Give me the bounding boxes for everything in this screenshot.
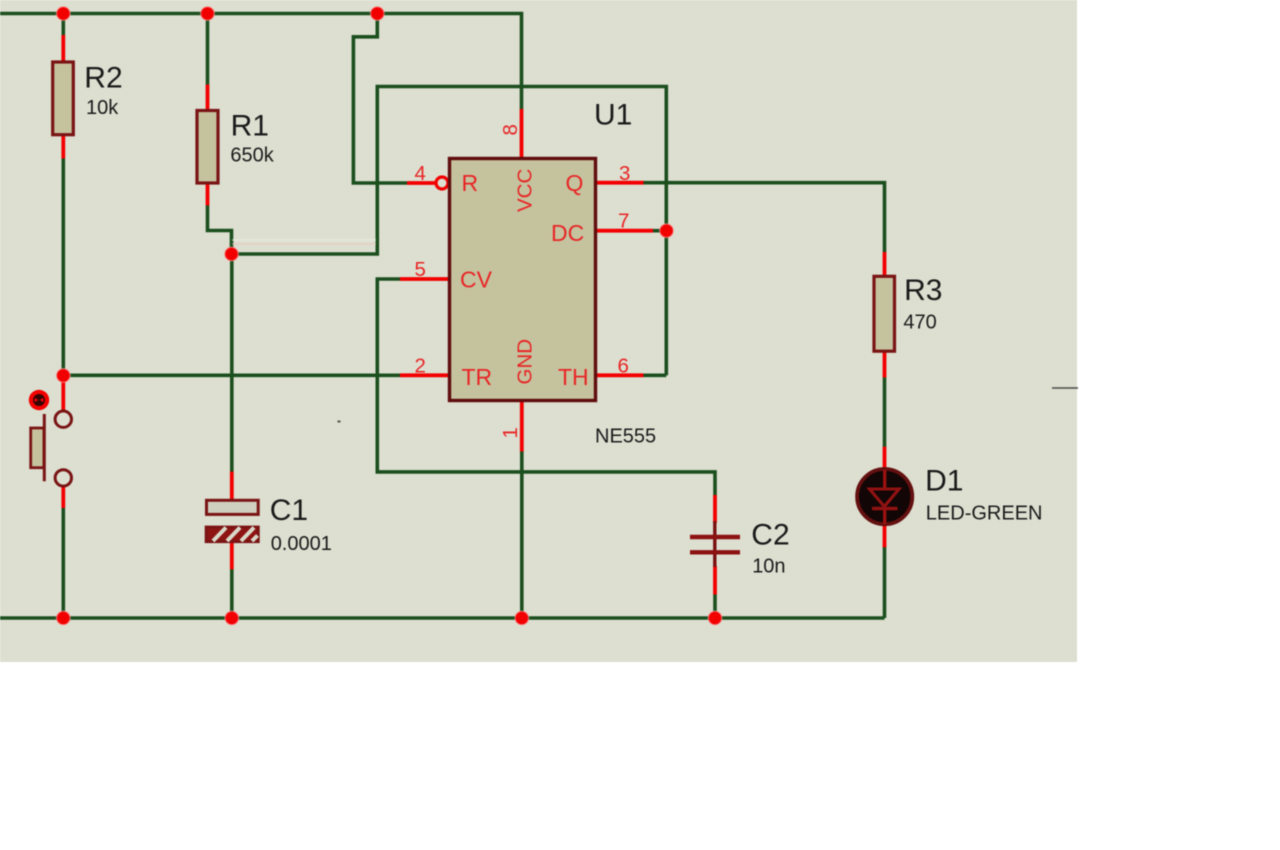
svg-text:R3: R3 [904, 274, 942, 307]
pin stub R2 top [61, 35, 65, 63]
pin stub U1 pin4 R [407, 181, 435, 185]
wire: pin1 GND drop [520, 451, 524, 618]
svg-text:LED-GREEN: LED-GREEN [926, 502, 1043, 524]
pin stub R3 top [883, 252, 887, 277]
wire: button bottom to ground rail [61, 508, 65, 619]
wire: Q output to R3 [643, 183, 885, 252]
faint ghost band [232, 239, 376, 241]
pin stub button bottom [61, 486, 65, 508]
pin stub R3 bottom [883, 351, 887, 378]
junction node: ground rail / button [57, 611, 71, 625]
svg-text:DC: DC [551, 220, 584, 246]
wire: C1 bottom green to rail [230, 569, 234, 618]
wire: R1 bottom jog to junction [208, 205, 232, 254]
wire: C2 bottom green [713, 594, 717, 618]
wire: C1 drop from junction [230, 254, 234, 472]
pin stub U1 pin3 Q [595, 181, 644, 185]
pin stub R1 bottom [206, 183, 210, 206]
svg-text:10n: 10n [752, 555, 785, 577]
LED D1 [857, 464, 1042, 524]
junction node: R1 bottom / C1 [225, 247, 239, 261]
pin stub U1 pin2 TR [400, 373, 450, 377]
pin stub U1 pin6 TH [595, 373, 644, 377]
wire: R2 top green [61, 14, 65, 37]
svg-text:R: R [462, 170, 479, 196]
op-amp U1 NE555 body [450, 98, 657, 447]
resistor R3 [874, 274, 942, 351]
svg-text:Q: Q [566, 170, 584, 196]
pin stub D1 bottom [883, 525, 887, 548]
svg-text:TH: TH [558, 364, 589, 390]
pin stub R2 bottom [61, 134, 65, 159]
junction node: top rail / riser [371, 7, 385, 21]
pin stub U1 pin5 CV [400, 277, 450, 281]
pin stub button top [61, 381, 65, 411]
svg-text:4: 4 [415, 162, 426, 185]
wire: pin4 R branch from top rail [353, 14, 407, 184]
wire: R2 bottom to TR junction [61, 158, 65, 376]
wire: pin7 link [652, 229, 666, 233]
wire: R3 to LED green [883, 377, 887, 447]
svg-text:1: 1 [499, 427, 522, 438]
junction node: TR / button [57, 369, 71, 383]
svg-text:R2: R2 [84, 61, 122, 94]
pin stub U1 pin1 GND [520, 401, 524, 452]
junction node: top rail / R1 [201, 7, 215, 21]
pin stub U1 pin8 VCC [520, 109, 524, 159]
wire: CV to C2 [377, 279, 715, 495]
faint ghost band pink [232, 243, 376, 245]
svg-text:6: 6 [618, 354, 629, 377]
resistor R2 [53, 61, 123, 134]
svg-text:NE555: NE555 [595, 426, 656, 448]
wire: junction to x377 riser [232, 87, 667, 376]
pin4 bubble [436, 177, 448, 189]
svg-text:GND: GND [514, 339, 537, 385]
svg-text:C2: C2 [751, 518, 789, 551]
resistor R1 [197, 110, 275, 184]
svg-text:C1: C1 [270, 494, 308, 527]
pin stub R1 top [206, 85, 210, 112]
svg-text:470: 470 [903, 312, 936, 334]
schematic canvas background [0, 0, 1077, 662]
svg-text:CV: CV [460, 267, 493, 293]
svg-text:0.0001: 0.0001 [271, 533, 332, 555]
svg-text:TR: TR [462, 364, 493, 390]
svg-text:2: 2 [415, 354, 426, 377]
pin stub U1 pin7 DC [595, 229, 653, 233]
svg-text:3: 3 [619, 162, 630, 185]
svg-text:VCC: VCC [514, 169, 537, 212]
wire: R1 top green [206, 14, 210, 86]
svg-text:R1: R1 [231, 110, 269, 143]
wire: bottom ground rail [0, 616, 885, 620]
stray mark [338, 421, 341, 423]
junction node: DC pin7 tap [660, 224, 674, 238]
junction node: ground rail / pin1 [515, 611, 529, 625]
wire: TR horizontal [63, 373, 400, 377]
junction node: top rail / R2 [57, 7, 71, 21]
svg-text:U1: U1 [594, 98, 632, 131]
junction node: ground rail / C2 [708, 611, 722, 625]
pin stub C2 top [713, 495, 717, 523]
junction node: ground rail / C1 [225, 611, 239, 625]
capacitor C1 (polarized) [206, 494, 332, 555]
svg-text:8: 8 [499, 124, 522, 135]
ruler tick line right edge [1052, 387, 1078, 389]
push button SW [29, 390, 72, 486]
pin stub C1 bottom [230, 541, 234, 569]
pin stub C2 bottom [713, 566, 717, 595]
capacitor C2 [690, 518, 790, 577]
svg-text:10k: 10k [86, 97, 119, 119]
svg-text:5: 5 [415, 258, 426, 281]
pin stub C1 top [230, 472, 234, 501]
svg-text:7: 7 [618, 210, 629, 233]
wire: LED bottom green [883, 545, 887, 618]
svg-text:650k: 650k [230, 145, 274, 167]
wire: pin6 link [643, 373, 666, 377]
svg-text:D1: D1 [925, 464, 963, 497]
wire: top VCC rail [0, 14, 522, 110]
pin stub D1 top [883, 447, 887, 469]
